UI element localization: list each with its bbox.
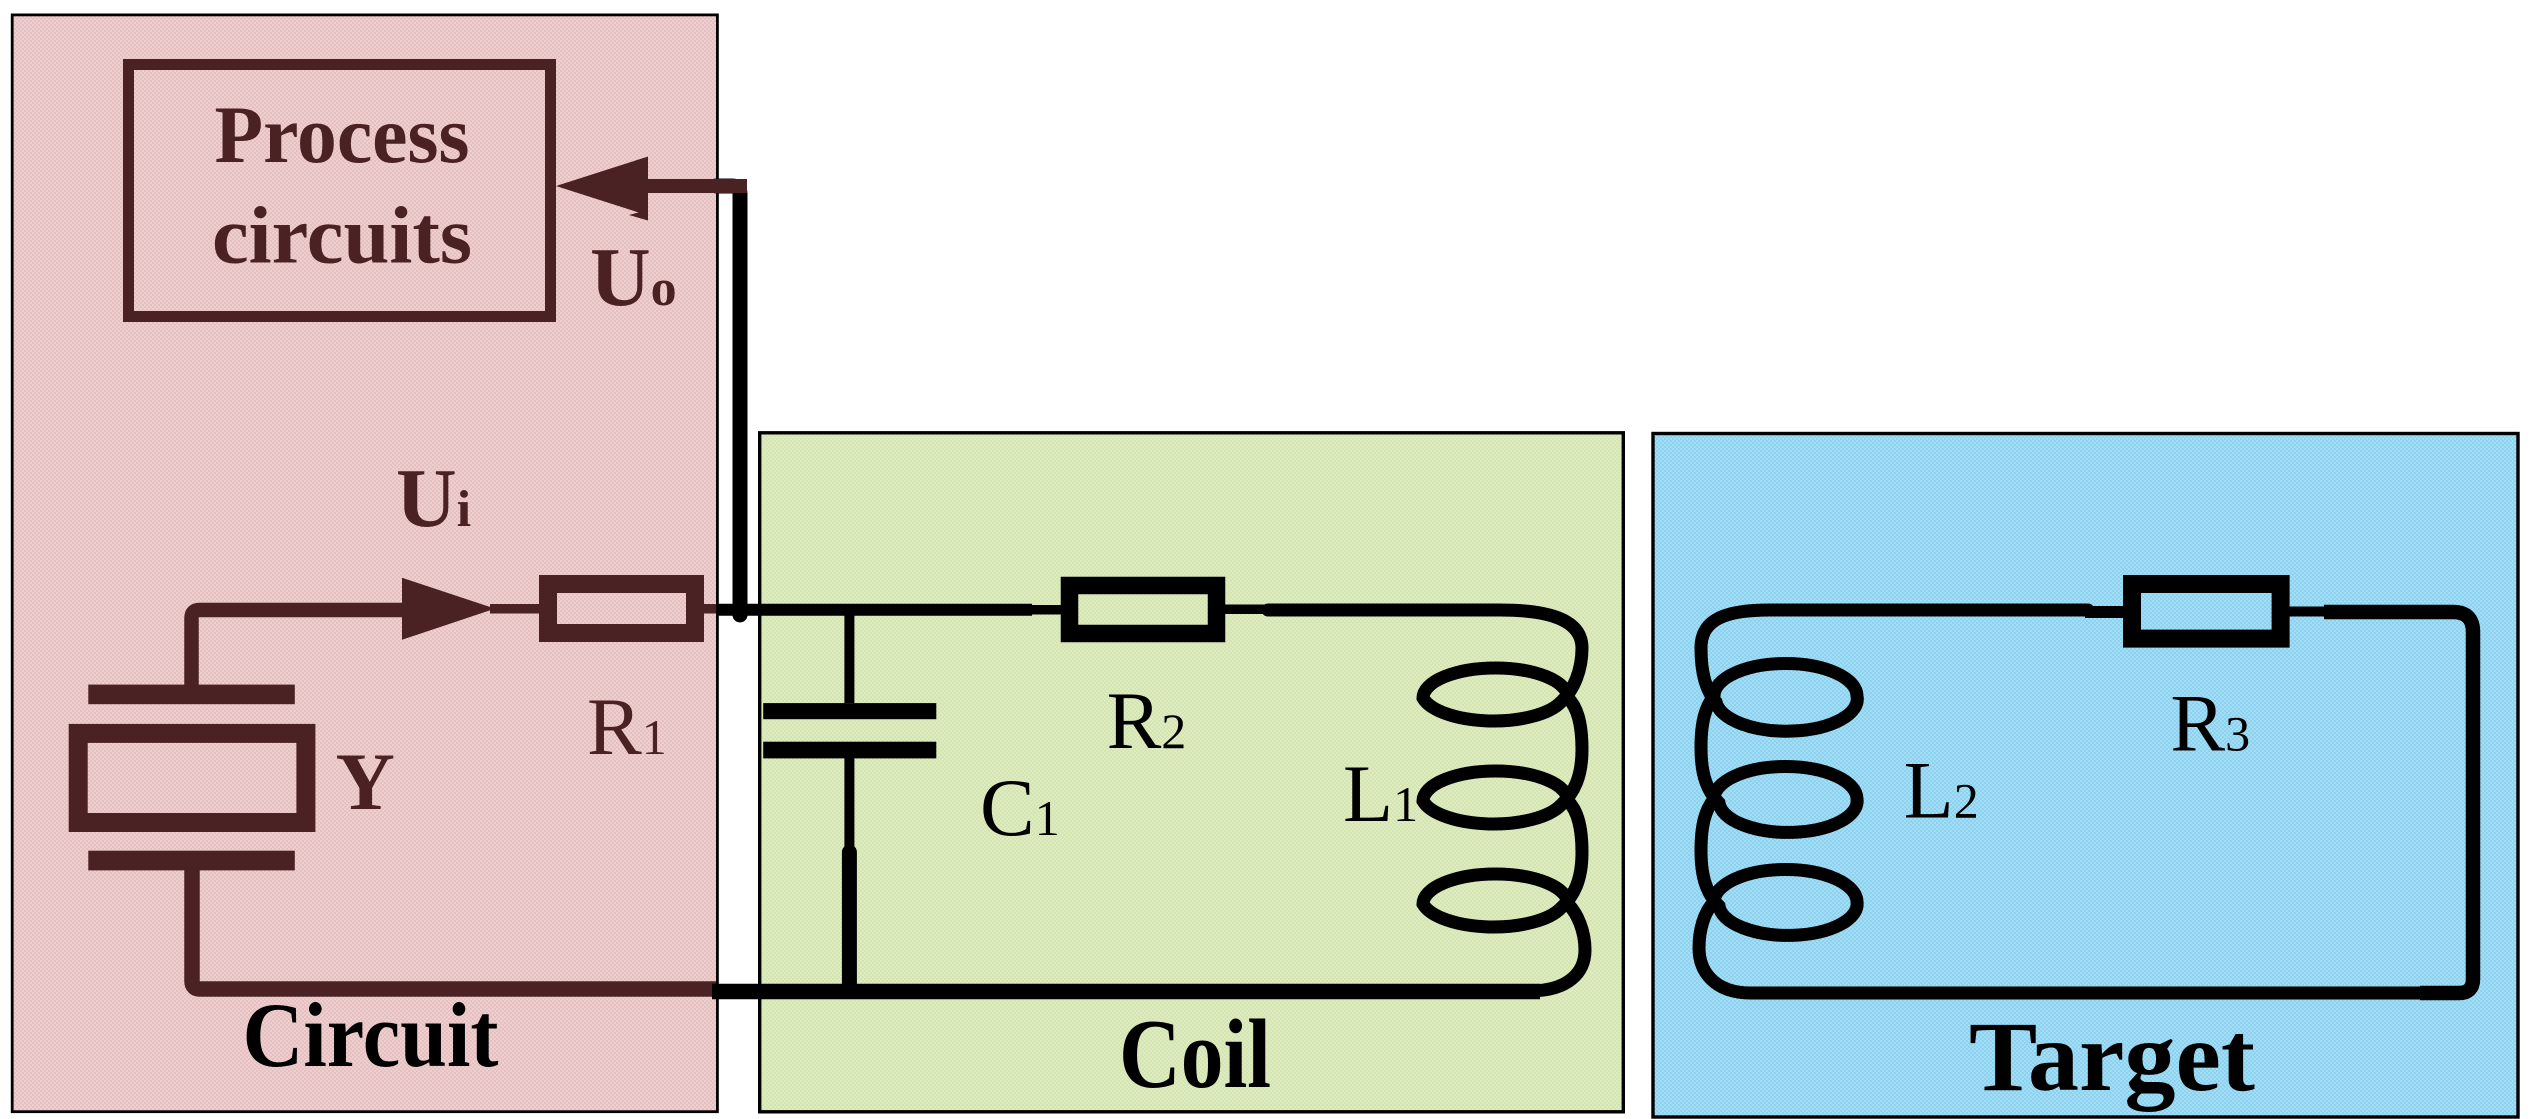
wire: R3 to right side down to bottom (Target loop)	[2324, 612, 2473, 993]
svg-text:Coil: Coil	[1119, 1000, 1271, 1109]
wire stub: right of R2	[1224, 605, 1271, 615]
wire: top node black wire from R1 into Coil box	[716, 604, 1032, 616]
wire stub: left of R3	[2085, 606, 2124, 618]
svg-text:Process: Process	[215, 89, 470, 180]
wire stub: R1 right to node	[702, 604, 718, 614]
resistor R2	[1070, 586, 1217, 634]
arrowhead Ui (points right toward R1)	[402, 578, 495, 640]
wire stub: arrow tip to R1	[490, 604, 540, 614]
wire: C1 top branch	[844, 604, 854, 703]
crystal Y bottom plate	[88, 851, 294, 871]
inductor L2 coil	[1699, 610, 2430, 993]
block Coil (green region)	[760, 433, 1624, 1112]
crystal Y top plate	[88, 685, 294, 705]
capacitor C1 top plate	[763, 703, 936, 719]
block Target (blue region)	[1653, 434, 2518, 1118]
arrowhead Uo (points left into Process circuits box)	[556, 157, 648, 216]
resistor R1	[548, 584, 695, 633]
box Process circuits	[129, 65, 551, 317]
wire stub: left of R2	[1026, 605, 1064, 615]
wire Ui: from crystal Y up and right to arrow	[192, 610, 411, 686]
crystal Y body	[78, 733, 306, 822]
wire Uo: black vertical from R1 output node up to arrow	[716, 186, 740, 615]
block Circuit (pink region)	[12, 15, 717, 1112]
wire stub: right of R3	[2288, 607, 2328, 617]
wire: C1 bottom branch thin	[844, 758, 854, 852]
wire: crystal bottom to pink box bottom wire (maroon)	[192, 868, 716, 989]
svg-text:Y: Y	[336, 736, 395, 827]
svg-text:circuits: circuits	[212, 190, 472, 281]
svg-text:Target: Target	[1969, 1001, 2255, 1112]
inductor L1 coil	[1268, 610, 1585, 991]
wire: C1 bottom branch thick	[842, 852, 857, 988]
capacitor C1 bottom plate	[763, 742, 936, 759]
wire Uo arrow shaft (maroon)	[640, 179, 747, 193]
resistor R3	[2132, 584, 2281, 639]
svg-text:Circuit: Circuit	[243, 984, 499, 1086]
wire: bottom black wire from Circuit box through Coil box	[712, 984, 1540, 1000]
